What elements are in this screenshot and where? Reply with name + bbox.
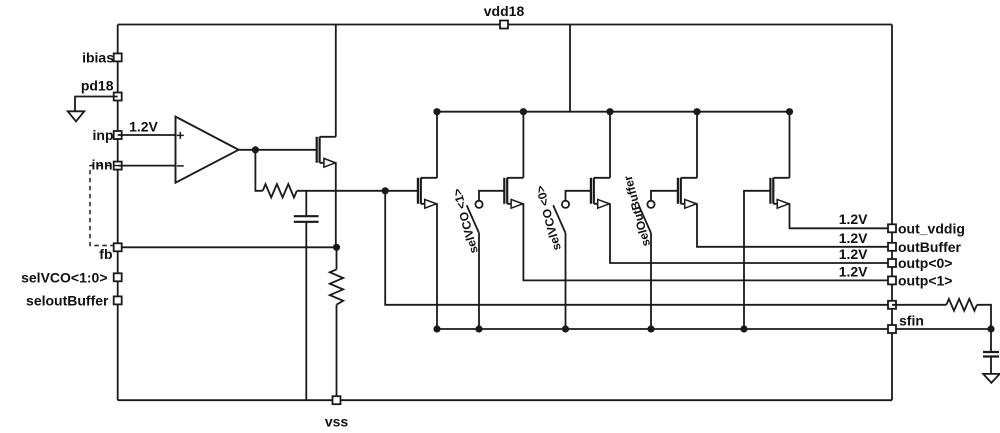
resistor R2 vertical: [330, 269, 343, 304]
wire top border vdd18 rail: [118, 24, 892, 26]
port outp0: [888, 259, 896, 267]
wire T1 source to sfin rail: [436, 204, 438, 329]
node sfin t1: [433, 325, 440, 332]
capacitor C2: [983, 352, 999, 357]
port inp: [114, 131, 122, 139]
wire T2 source to outp1 port: [523, 204, 892, 281]
wire left border: [117, 25, 119, 401]
svg-text:inn: inn: [92, 157, 113, 173]
wire vdd18 vertical to drain rail: [569, 25, 571, 112]
svg-text:inp: inp: [93, 127, 114, 143]
capacitor C1: [294, 216, 319, 222]
port seloutBuffer: [114, 296, 122, 304]
svg-text:selOutBuffer: selOutBuffer: [621, 174, 653, 248]
op-amp minus pin mark: [177, 165, 184, 167]
wire switch S2 to sfin rail: [565, 233, 567, 329]
svg-text:pd18: pd18: [81, 78, 114, 94]
svg-text:vdd18: vdd18: [484, 3, 525, 19]
svg-text:ibias: ibias: [82, 50, 114, 66]
node op-amp output: [252, 146, 259, 153]
wire M1 source down to fb node: [335, 163, 337, 248]
resistor R3: [946, 299, 977, 311]
port outBuffer: [888, 243, 896, 251]
svg-text:outBuffer: outBuffer: [898, 239, 962, 255]
wire T5 source to out_vddig port: [790, 204, 893, 229]
op-amp plus pin mark: [177, 132, 184, 139]
op-amp U1: [176, 117, 239, 183]
wire fb line: [118, 246, 337, 248]
node sfin s1: [475, 325, 482, 332]
resistor R1 horizontal: [263, 184, 297, 197]
wire T3 source to outp0 port: [610, 204, 892, 263]
wire drain rail: [437, 111, 790, 113]
node sfin s2: [562, 325, 569, 332]
wire capacitor C2 to ground: [990, 357, 992, 374]
wire op-amp output to M1 gate: [239, 149, 317, 151]
node drain rail t1: [433, 108, 440, 115]
switch S3 selOutBuffer: [639, 191, 678, 233]
port ibias: [114, 53, 122, 61]
switch S2 selVCO0: [553, 191, 591, 233]
wire gate bus down to right port: [385, 191, 892, 305]
node sfin t5gate: [740, 325, 747, 332]
transistor T2: [504, 112, 523, 209]
port fb: [114, 243, 122, 251]
wire sfin node to capacitor C2: [990, 329, 992, 352]
wire inn to op-amp: [118, 165, 176, 167]
wire pd18 to ground: [75, 97, 118, 112]
svg-text:1.2V: 1.2V: [839, 230, 868, 246]
port vdd18: [500, 21, 508, 29]
node sfin rc: [987, 325, 994, 332]
svg-text:outp<1>: outp<1>: [898, 272, 952, 288]
svg-text:1.2V: 1.2V: [839, 211, 868, 227]
svg-text:out_vddig: out_vddig: [898, 220, 965, 236]
svg-text:selVCO <1>: selVCO <1>: [450, 187, 481, 255]
wire gate bus to t1: [297, 190, 418, 192]
svg-text:sfin: sfin: [899, 313, 924, 329]
wire inp to op-amp: [118, 134, 176, 136]
port out_vddig: [888, 224, 896, 232]
wire right border: [891, 25, 893, 401]
transistor T1: [418, 112, 437, 209]
port selVCO10: [114, 273, 122, 281]
node drain rail t2: [520, 108, 527, 115]
transistor M1: [317, 137, 336, 167]
ground at pd18: [68, 111, 85, 121]
wire fb node to resistor R2: [336, 247, 338, 269]
wire M1 drain to vdd rail: [335, 25, 337, 137]
svg-text:1.2V: 1.2V: [839, 246, 868, 262]
port vss: [333, 396, 341, 404]
node gate bus branch: [382, 187, 389, 194]
port outp1: [888, 276, 896, 284]
transistor T5: [770, 112, 789, 209]
wire capacitor C1 to vss rail: [305, 222, 307, 400]
svg-text:selVCO<1:0>: selVCO<1:0>: [21, 269, 107, 285]
node sfin s3: [647, 325, 654, 332]
wire rc port to resistor R3: [892, 304, 946, 306]
wire T5 gate to sfin rail: [744, 191, 770, 329]
svg-text:seloutBuffer: seloutBuffer: [26, 292, 109, 308]
transistor T4: [678, 112, 697, 209]
svg-text:1.2V: 1.2V: [839, 263, 868, 279]
port pd18: [114, 93, 122, 101]
svg-text:fb: fb: [99, 246, 112, 262]
node drain rail t3: [606, 108, 613, 115]
wire resistor R3 to sfin node: [977, 305, 991, 329]
wire capacitor C1 top: [305, 191, 307, 216]
wire switch S1 to sfin rail: [478, 233, 480, 329]
svg-text:outp<0>: outp<0>: [898, 255, 952, 271]
wire T4 source to outBuffer port: [697, 204, 892, 247]
node drain rail t5: [786, 108, 793, 115]
ground at sfin rc: [983, 374, 1000, 383]
svg-text:1.2V: 1.2V: [129, 119, 158, 135]
transistor T3: [591, 112, 610, 209]
wire node down to resistor R1: [255, 150, 262, 191]
switch S1 selVCO1: [467, 191, 505, 233]
wire bottom border vss rail: [118, 399, 892, 401]
wire resistor R2 to vss rail: [336, 305, 338, 401]
wire sfin rail: [437, 328, 991, 330]
node fb junction: [333, 244, 340, 251]
port sfin: [888, 325, 896, 333]
port inn: [114, 162, 122, 170]
port gate rc: [888, 301, 896, 309]
wire switch S3 to sfin rail: [650, 233, 652, 329]
wire dashed inn to fb feedback: [90, 166, 118, 246]
node drain rail t4: [693, 108, 700, 115]
svg-text:vss: vss: [325, 414, 349, 430]
